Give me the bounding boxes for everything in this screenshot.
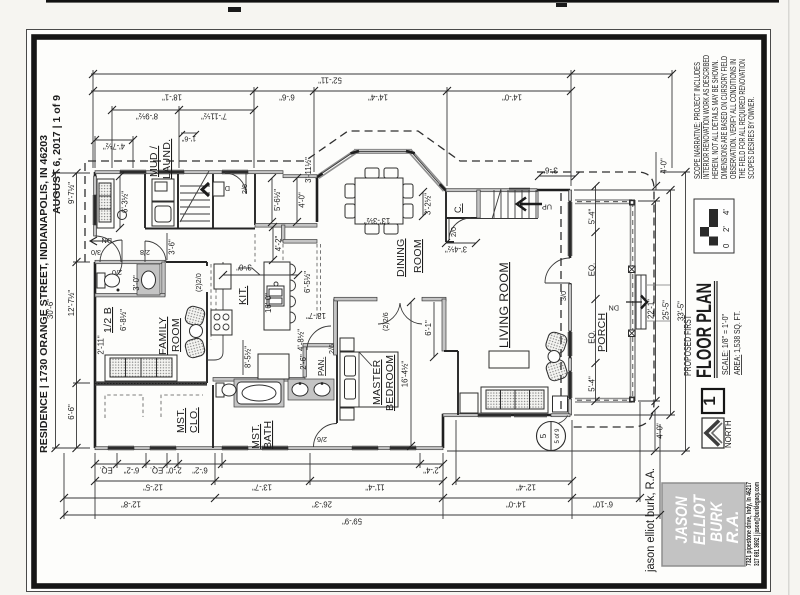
svg-text:52'-11": 52'-11" (318, 76, 342, 85)
living room coffee table (489, 351, 529, 368)
svg-text:DN: DN (609, 304, 619, 313)
svg-text:26'-3": 26'-3" (312, 500, 332, 509)
svg-text:NORTH: NORTH (724, 420, 733, 448)
svg-text:3'-0": 3'-0" (132, 275, 141, 291)
svg-text:LIVING ROOM: LIVING ROOM (499, 262, 511, 348)
interior wall: closet/bath divider (212, 385, 214, 448)
svg-text:UP: UP (542, 203, 552, 212)
svg-text:22'-1": 22'-1" (647, 299, 656, 319)
top dim row 2 (89, 87, 575, 102)
svg-text:4'-0": 4'-0" (660, 158, 669, 174)
window: west wall den (93, 195, 97, 225)
half bath vanity (137, 264, 160, 295)
svg-text:3'-11½": 3'-11½" (304, 157, 313, 183)
svg-text:6'-10": 6'-10" (593, 500, 613, 509)
closet C door 2/0 (449, 218, 471, 240)
exterior wall: east (living) with door gap (569, 190, 572, 415)
svg-text:0: 0 (722, 243, 731, 248)
graphic scale box (694, 199, 734, 253)
mud utility counter (213, 182, 224, 196)
svg-text:SCOPES DESIRES BY OWNER.: SCOPES DESIRES BY OWNER. (747, 97, 756, 179)
scope narrative note block (top right) (693, 55, 756, 179)
svg-text:25'-5": 25'-5" (662, 300, 671, 320)
interior wall: laundry/stair divider (178, 174, 213, 228)
porch screen walls (double gray lines) (575, 200, 632, 204)
dim 12'-4" living (452, 477, 576, 492)
master bath toilet (216, 383, 236, 397)
dim 3'-6" stair top (535, 166, 580, 181)
master closet rods (dashed) (105, 395, 203, 418)
interior wall: family room south (95, 381, 207, 385)
windows: north wall (120, 170, 248, 174)
svg-text:DN: DN (102, 236, 112, 245)
svg-text:SCALE: 1/8" = 1'-0": SCALE: 1/8" = 1'-0" (721, 314, 730, 375)
exterior wall: north (95, 172, 317, 176)
svg-text:12'-4": 12'-4" (516, 483, 536, 492)
porch corner posts (629, 200, 635, 206)
west exterior door DN (95, 236, 121, 262)
dim 1'-6" jog (179, 131, 199, 144)
paper right edge shadow (788, 0, 790, 595)
dim 4'-0" porch bottom (651, 406, 665, 455)
scan artifact: black strip at very top (46, 0, 779, 3)
svg-text:(2)2/0: (2)2/0 (194, 273, 203, 292)
svg-text:R.A.: R.A. (724, 511, 742, 544)
svg-text:PORCH: PORCH (596, 313, 608, 352)
porch EQ dims (588, 182, 600, 405)
basement stairs (mud room) (180, 171, 210, 222)
sofa end table (553, 396, 568, 412)
kitchen counter (dashed upper cabinets) (211, 234, 321, 340)
svg-text:16'-4½": 16'-4½" (401, 361, 410, 388)
left dims: segments (67, 169, 81, 452)
svg-text:2/8: 2/8 (140, 248, 150, 257)
svg-text:8'-9½": 8'-9½" (136, 112, 158, 121)
windows: south wall (108, 446, 416, 450)
left dim: 30'-6" (46, 169, 60, 452)
svg-text:HEREIN. NOT ALL DETAILS MAY B: HEREIN. NOT ALL DETAILS MAY BE SHOWN. (711, 60, 720, 179)
kitchen range (211, 310, 232, 335)
svg-text:5'-6½": 5'-6½" (273, 189, 282, 211)
top dim row 1: 52'-11" (89, 70, 676, 85)
bedroom entry door 2/6 (314, 424, 338, 448)
kitchen fridge (214, 264, 231, 289)
detail circle 5/5of9 (537, 416, 568, 451)
svg-text:4'-0": 4'-0" (656, 423, 665, 439)
bottom dim row 3 (60, 494, 644, 509)
svg-text:jason elliot burk, R.A.: jason elliot burk, R.A. (645, 468, 657, 573)
svg-text:13'-7": 13'-7" (252, 483, 272, 492)
dim 4'-0" porch top (655, 152, 657, 190)
svg-text:3'-4½": 3'-4½" (445, 245, 467, 254)
svg-text:4': 4' (722, 209, 731, 215)
mud room door arc 2/6 (225, 173, 246, 194)
exterior wall: west with door gap (94, 172, 97, 448)
living room chairs + round table (544, 331, 568, 383)
extension lines top (93, 70, 672, 186)
svg-text:3/0: 3/0 (91, 248, 101, 257)
living room sofa (481, 387, 548, 413)
den doors at fy262 (100, 240, 122, 262)
washer / dryer (152, 179, 174, 226)
half bath toilet (97, 273, 120, 292)
svg-text:5 of 9: 5 of 9 (555, 428, 561, 444)
kitchen lower island (258, 354, 289, 379)
svg-text:1'-6": 1'-6" (181, 135, 196, 144)
bottom extension lines (64, 402, 660, 519)
svg-text:14'-4": 14'-4" (368, 93, 388, 102)
svg-text:OBSERVATION. VERIFY ALL CONDI: OBSERVATION. VERIFY ALL CONDITIONS IN (729, 59, 738, 179)
svg-text:ROOM: ROOM (170, 318, 182, 352)
right dim: 33'-5" (677, 168, 690, 455)
interior wall: den/laundry divider (144, 174, 146, 228)
wall hatch fills (speckled walls rendered gray) (95, 171, 120, 174)
svg-text:KIT.: KIT. (237, 286, 249, 305)
master bath tub (234, 379, 284, 407)
svg-text:13'-7": 13'-7" (306, 311, 326, 320)
svg-text:6'-2": 6'-2" (192, 466, 208, 475)
svg-text:1/2 B: 1/2 B (102, 307, 114, 333)
svg-text:LAUND.: LAUND. (161, 139, 173, 179)
window: stair top wall (509, 188, 530, 192)
svg-text:RESIDENCE | 1730 ORANGE STREET: RESIDENCE | 1730 ORANGE STREET, INDIANAP… (39, 135, 50, 453)
svg-text:14'-0": 14'-0" (502, 93, 522, 102)
exterior wall: dining bay (mostly windows) (316, 176, 319, 222)
svg-text:14'-0": 14'-0" (506, 500, 526, 509)
fireplace nook (460, 393, 478, 413)
svg-text:6'-3½": 6'-3½" (121, 191, 130, 213)
closet C walls by stairs (446, 217, 480, 219)
interior roof overhang dashed line (560, 193, 562, 413)
master bath double vanity (288, 379, 334, 400)
svg-text:5'-4": 5'-4" (588, 376, 597, 392)
bottom dim row 4: 59'-9" (60, 511, 664, 526)
svg-text:DINING: DINING (395, 238, 407, 277)
svg-text:EQ.: EQ. (150, 466, 163, 475)
svg-text:THE FIELD FOR ALL REQUIRED REN: THE FIELD FOR ALL REQUIRED RENOVATION (738, 59, 747, 179)
bedroom north wall (hatched) with double door gap (334, 297, 377, 301)
svg-text:4'-8½": 4'-8½" (297, 329, 306, 351)
svg-text:6'-1": 6'-1" (424, 320, 433, 336)
den built-in sofa (97, 179, 127, 228)
master bed (340, 338, 398, 420)
bar stools (290, 264, 296, 323)
svg-text:2/6: 2/6 (240, 184, 249, 194)
svg-text:8'-5½": 8'-5½" (244, 346, 253, 368)
svg-text:1: 1 (700, 396, 719, 405)
svg-text:5: 5 (539, 433, 548, 438)
svg-text:5'-4": 5'-4" (588, 209, 597, 225)
svg-text:12'-8": 12'-8" (121, 500, 141, 509)
svg-text:(2)2/6: (2)2/6 (381, 312, 390, 331)
svg-text:30'-6": 30'-6" (46, 299, 55, 319)
svg-text:4'-0": 4'-0" (298, 192, 307, 208)
half bath hatched walls (95, 260, 165, 263)
windows: east wall (568, 202, 572, 398)
svg-text:7'-11½": 7'-11½" (201, 112, 227, 121)
bottom dim row 1 (91, 460, 447, 475)
logo box: JASON ELLIOT BURK R.A. (662, 483, 745, 566)
interior wall: family/kitchen divider with cased opening (206, 262, 208, 383)
dining table + chairs (345, 168, 413, 234)
svg-text:11'-4": 11'-4" (365, 483, 385, 492)
right dim: 22'-1" (647, 197, 660, 405)
top dim row 3 (108, 106, 258, 121)
bottom dim row 2 (91, 477, 447, 492)
svg-text:EQ.: EQ. (99, 466, 112, 475)
svg-text:4'-2": 4'-2" (274, 236, 283, 252)
svg-text:ELLIOT: ELLIOT (691, 493, 709, 545)
living room east door 3/0 (545, 258, 570, 283)
interior wall: kitchen north walls (hatched) (282, 225, 285, 241)
svg-text:6'-5½": 6'-5½" (303, 271, 312, 293)
svg-text:AUGUST 6, 2017 | 1 of 9: AUGUST 6, 2017 | 1 of 9 (52, 95, 63, 214)
svg-text:2'-6": 2'-6" (299, 354, 308, 370)
left extension lines (52, 173, 90, 448)
svg-text:BEDROOM: BEDROOM (384, 355, 396, 411)
svg-text:59'-9": 59'-9" (342, 517, 362, 526)
interior wall: bath north (hatched) (213, 378, 305, 382)
svg-text:2'-4": 2'-4" (423, 466, 439, 475)
svg-text:4'-7½": 4'-7½" (103, 142, 125, 151)
svg-text:6'-6": 6'-6" (67, 404, 76, 420)
svg-text:C.: C. (453, 203, 463, 213)
svg-text:33'-5": 33'-5" (677, 301, 686, 321)
svg-text:PAN.: PAN. (317, 357, 326, 376)
exterior wall: south living (443, 415, 570, 448)
svg-text:13'-3½": 13'-3½" (364, 216, 391, 225)
svg-text:AREA: 1,538 SQ. FT.: AREA: 1,538 SQ. FT. (733, 311, 742, 375)
svg-text:6'-8½": 6'-8½" (119, 309, 128, 331)
kitchen island with sink (264, 262, 290, 330)
interior wall: mud bottom (145, 228, 255, 230)
exterior wall: south (95, 447, 443, 450)
svg-text:2/0: 2/0 (449, 227, 458, 237)
svg-text:MST.: MST. (250, 424, 262, 449)
svg-text:2/6: 2/6 (327, 344, 336, 354)
svg-text:16'-0": 16'-0" (264, 293, 273, 313)
svg-text:12'-5": 12'-5" (143, 483, 163, 492)
family room sofa (105, 355, 177, 381)
svg-text:9'-7½": 9'-7½" (67, 182, 76, 204)
interior wall: bedroom west with door gap (336, 299, 338, 423)
svg-text:DIMENSIONS ARE BASED ON CURSOR: DIMENSIONS ARE BASED ON CURSORY FIELD (720, 56, 729, 179)
right extension lines (447, 172, 690, 451)
svg-text:SCOPE NARRATIVE: PROJECT INCL: SCOPE NARRATIVE: PROJECT INCLUDES (693, 62, 702, 179)
svg-text:MUD /: MUD / (148, 146, 160, 177)
right dim: 25'-5" (662, 186, 675, 419)
porch steps (636, 275, 646, 329)
svg-text:CLO.: CLO. (188, 407, 200, 433)
svg-text:2': 2' (722, 226, 731, 232)
nook walls by living room (444, 351, 458, 415)
svg-text:3'-0": 3'-0" (236, 263, 252, 272)
roof overhang dashed outline (porch, rounded corners) (537, 172, 654, 427)
pantry label/door (307, 326, 331, 350)
svg-text:2/6: 2/6 (317, 435, 327, 444)
svg-text:INTERIOR RENOVATION WORK AS DE: INTERIOR RENOVATION WORK AS DESCRIBED (702, 55, 711, 179)
pantry walls (hatched) (303, 345, 306, 377)
svg-text:6'-2": 6'-2" (124, 466, 140, 475)
interior wall: closet bottom (hatched) (255, 224, 317, 228)
svg-text:12'-7½": 12'-7½" (67, 290, 76, 317)
svg-text:6'-6": 6'-6" (279, 93, 295, 102)
svg-text:BATH: BATH (262, 421, 274, 449)
half bath door 2/0 (102, 262, 122, 282)
interior wall: stair closet west (254, 174, 256, 225)
svg-text:3'-6": 3'-6" (542, 166, 558, 175)
bedroom east window wall (442, 299, 446, 351)
sheet number box (702, 389, 724, 413)
north arrow box (702, 418, 724, 448)
stairs up: direction arrow (517, 198, 542, 211)
top dim 4'-7.5 (91, 136, 137, 168)
exterior wall: stair top (446, 189, 570, 192)
interior wall: den bottom / half-bath top with door gaps (95, 261, 207, 263)
svg-text:2'-0": 2'-0" (166, 466, 182, 475)
svg-text:EQ.: EQ. (588, 263, 597, 276)
svg-text:MST.: MST. (175, 408, 187, 433)
family room chairs + table (184, 305, 206, 359)
roof overhang dashed outline (left + bay) (85, 131, 533, 262)
svg-text:3'-2½": 3'-2½" (424, 193, 433, 215)
svg-text:3'-6": 3'-6" (168, 239, 177, 255)
svg-text:18'-1": 18'-1" (162, 93, 182, 102)
svg-text:MASTER: MASTER (371, 359, 383, 405)
window: living south (behind sofa) (478, 413, 547, 417)
svg-text:317 691 3692 | jason@burklegac: 317 691 3692 | jason@burklegacy.com (752, 482, 761, 566)
svg-text:ROOM: ROOM (412, 239, 424, 273)
stairs up: treads (466, 189, 538, 219)
svg-text:2'-11": 2'-11" (97, 335, 106, 355)
svg-text:FLOOR PLAN: FLOOR PLAN (692, 283, 716, 378)
svg-text:FAMILY: FAMILY (157, 317, 169, 355)
bedroom double door (2)2/6 (378, 303, 422, 324)
svg-text:JASON: JASON (673, 496, 691, 544)
